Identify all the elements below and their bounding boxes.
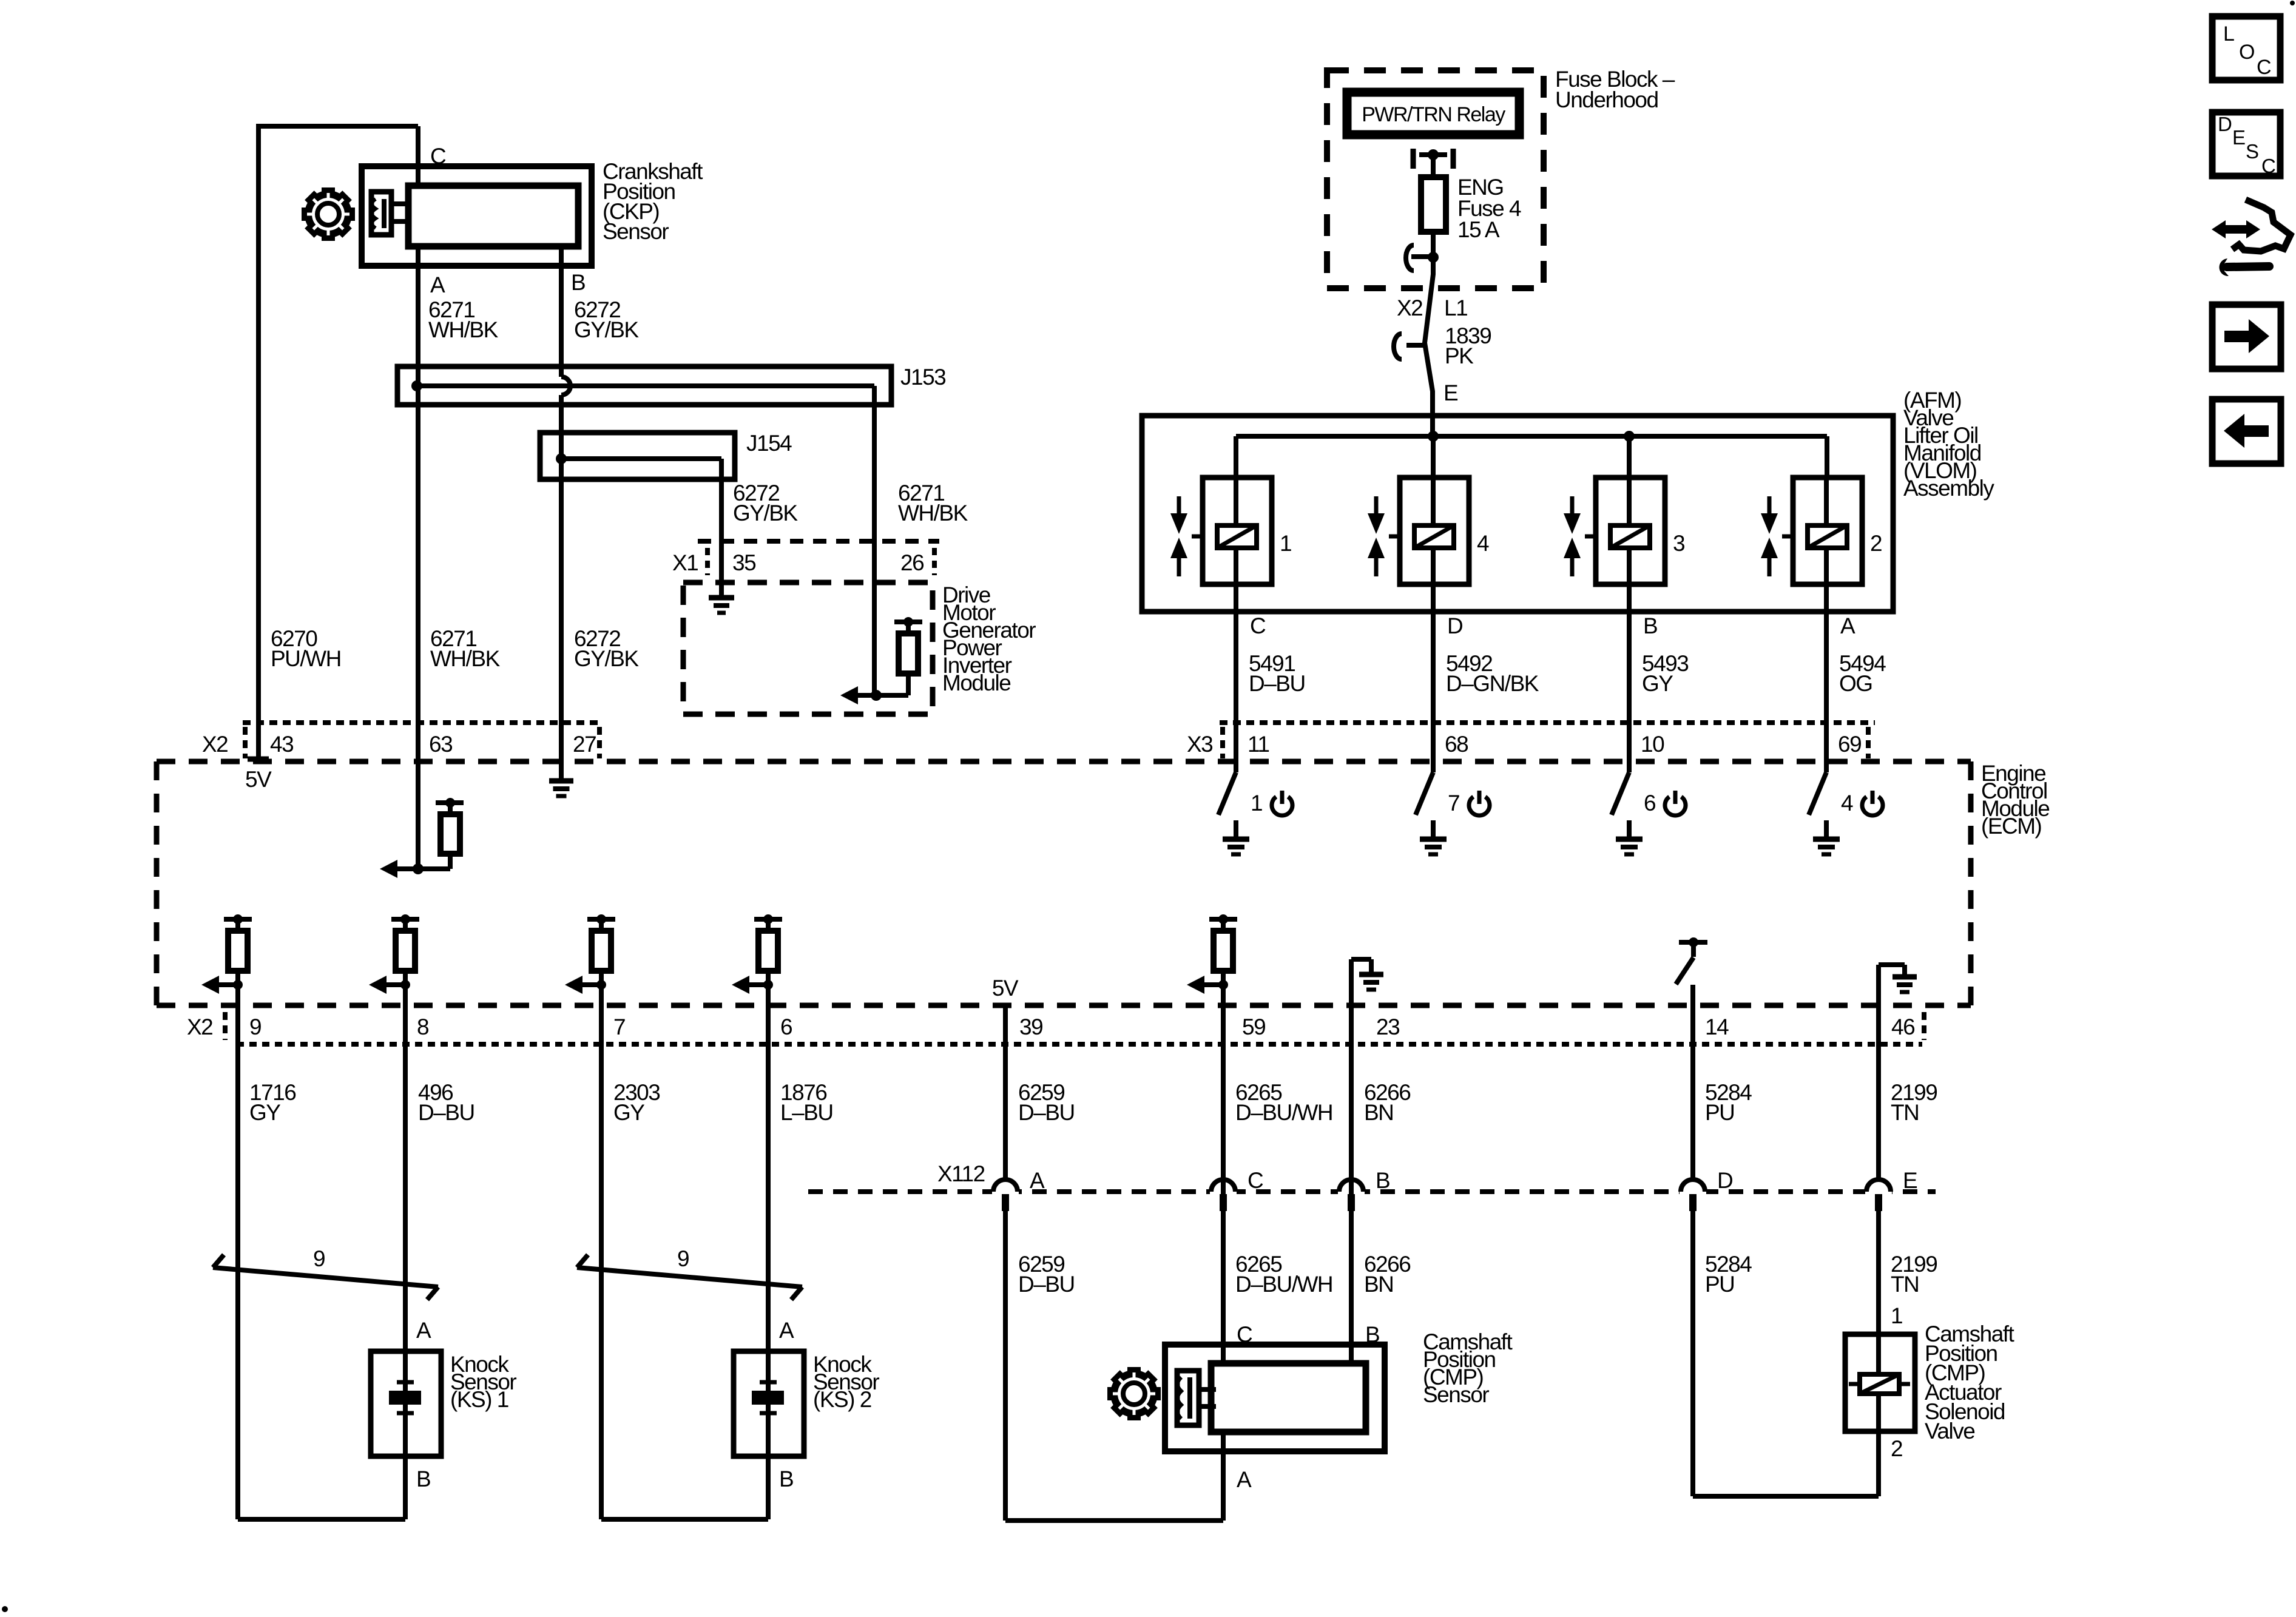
svg-text:B: B <box>1376 1168 1389 1193</box>
wire 6259 lower + loop to CMP A <box>1003 1211 1008 1521</box>
svg-text:1: 1 <box>1280 531 1291 556</box>
svg-text:7: 7 <box>1448 791 1459 815</box>
ECM pull-up above pin 7 <box>587 917 615 922</box>
ECM pull-up above pin 8 <box>391 917 419 922</box>
svg-text:26: 26 <box>900 550 923 575</box>
wire 2199 lower into actuator 1 <box>1876 1211 1881 1334</box>
svg-text:2: 2 <box>1870 531 1882 556</box>
CKP sensor outer box <box>362 166 592 266</box>
wire fuse to connector <box>1431 232 1436 260</box>
svg-text:L: L <box>2223 22 2234 46</box>
svg-text:10: 10 <box>1641 732 1664 757</box>
svg-text:35: 35 <box>732 550 756 575</box>
svg-text:D–BU: D–BU <box>1018 1272 1075 1297</box>
svg-text:46: 46 <box>1891 1014 1914 1039</box>
svg-text:BN: BN <box>1364 1100 1393 1125</box>
svg-text:A: A <box>779 1318 794 1343</box>
svg-text:X1: X1 <box>672 550 698 575</box>
svg-text:43: 43 <box>270 732 293 757</box>
svg-text:C: C <box>1237 1322 1252 1347</box>
wire relay to fuse <box>1431 155 1436 177</box>
svg-text:J154: J154 <box>746 431 792 456</box>
forward arrow <box>2224 319 2269 353</box>
VLOM assembly outer box <box>1142 416 1893 612</box>
svg-text:WH/BK: WH/BK <box>430 646 501 671</box>
svg-text:PU: PU <box>1705 1100 1734 1125</box>
junction dot J153 on wire 6271 <box>411 380 422 391</box>
svg-text:X112: X112 <box>937 1161 985 1186</box>
wire 5493 GY (VLOM B to ECM 10) <box>1627 584 1632 772</box>
wire 2303 GY (pin 7) <box>599 985 604 1519</box>
Drive Motor Generator Power Inverter Module box <box>683 582 933 714</box>
svg-text:15 A: 15 A <box>1457 217 1500 242</box>
wire 6271 branch to X1-26 <box>872 386 877 695</box>
CMP sensor inner body <box>1211 1363 1366 1432</box>
CKP sensor connector element box <box>372 199 376 228</box>
svg-text:O: O <box>2239 41 2254 64</box>
svg-text:D: D <box>1447 613 1462 638</box>
svg-text:6: 6 <box>780 1014 792 1039</box>
wire 1716 GY (pin 9) <box>235 985 240 1519</box>
svg-text:Sensor: Sensor <box>1423 1382 1489 1407</box>
svg-text:PK: PK <box>1445 343 1474 368</box>
svg-text:A: A <box>1030 1168 1045 1193</box>
CMP connector link bars <box>1199 1387 1216 1392</box>
wire 6270 top segment (CKP pin C feed) <box>258 124 418 129</box>
wire 2199 TN upper (pin 46) <box>1876 965 1881 1181</box>
svg-text:OG: OG <box>1839 671 1872 696</box>
wire 5284 lower (pin 14 to actuator 2) <box>1690 1211 1695 1496</box>
svg-text:D–BU: D–BU <box>418 1100 474 1125</box>
shielding symbol knock sensor 1 circuit <box>213 1268 438 1287</box>
piezo element KS1 <box>403 1351 408 1456</box>
Engine Control Module (ECM) dashed outline <box>157 759 1971 765</box>
svg-text:L–BU: L–BU <box>780 1100 833 1125</box>
svg-text:D: D <box>1717 1168 1732 1193</box>
svg-text:J153: J153 <box>900 365 945 390</box>
wire loop actuator return <box>1693 1494 1879 1499</box>
splice J153 box <box>397 366 891 405</box>
CMP sensor outer box <box>1165 1345 1385 1451</box>
connector row X3 dotted line <box>1220 720 1875 725</box>
svg-text:TN: TN <box>1891 1100 1919 1125</box>
svg-text:7: 7 <box>613 1014 625 1039</box>
terminal T-bar at ECM pin 43 <box>248 757 269 762</box>
svg-text:68: 68 <box>1445 732 1468 757</box>
svg-text:E: E <box>1903 1168 1917 1193</box>
ECM pull-up above pin 59 <box>1209 917 1237 922</box>
svg-text:B: B <box>571 270 585 295</box>
junction dot at X1-26 internal <box>871 690 882 701</box>
svg-text:A: A <box>416 1318 431 1343</box>
wire 5284 PU upper (pin 14) <box>1690 985 1695 1181</box>
CKP sensor inner body <box>408 186 578 246</box>
connector row X1 <box>698 539 939 544</box>
svg-text:5V: 5V <box>245 767 272 792</box>
svg-text:C: C <box>1248 1168 1263 1193</box>
oil control solenoid 2 (VLOM) <box>1793 478 1862 584</box>
junction dot bus/solenoid3 <box>1624 431 1635 442</box>
svg-text:1: 1 <box>1891 1303 1902 1328</box>
DESC navigation box <box>2212 112 2280 176</box>
X2 bottom separator dash <box>223 1012 228 1040</box>
svg-text:X2: X2 <box>202 732 228 757</box>
X1 separator dash right <box>932 548 937 575</box>
svg-text:GY: GY <box>249 1100 280 1125</box>
svg-text:9: 9 <box>313 1246 325 1271</box>
wire 6265 into CMP C <box>1221 1181 1226 1366</box>
svg-text:Assembly: Assembly <box>1903 476 1994 501</box>
CMP actuator solenoid valve box <box>1845 1334 1915 1431</box>
wire loop KS1 return (pin 9 to B) <box>238 1517 405 1522</box>
shielding symbol knock sensor 2 circuit <box>577 1268 802 1287</box>
svg-text:5V: 5V <box>992 976 1019 1001</box>
svg-text:39: 39 <box>1019 1014 1042 1039</box>
svg-text:3: 3 <box>1673 531 1684 556</box>
wire 5492 D-GN/BK (VLOM D to ECM 68) <box>1431 584 1436 772</box>
svg-text:C: C <box>1250 613 1266 638</box>
X3 separator dash right <box>1866 727 1871 758</box>
inline connector X112 terminal C <box>1210 1187 1237 1197</box>
svg-text:14: 14 <box>1705 1014 1729 1039</box>
wire loop KS2 return (pin 7 to B) <box>601 1517 768 1522</box>
wire 5491 D-BU (VLOM C to ECM 11) <box>1234 584 1238 772</box>
bus drop to solenoid 1 <box>1234 436 1238 478</box>
relay terminal bracket <box>1411 149 1416 169</box>
wire 6265 D-BU/WH upper (pin 59) <box>1221 985 1226 1181</box>
internal arrow (inverter module input) <box>840 686 858 704</box>
svg-text:C: C <box>2257 56 2271 79</box>
crossover hop on wire 6272 at J153 <box>561 377 570 395</box>
svg-text:PU/WH: PU/WH <box>271 646 341 671</box>
wire 496 D-BU (pin 8) <box>403 985 408 1351</box>
svg-text:WH/BK: WH/BK <box>428 317 499 342</box>
connector clip lower <box>1406 343 1425 348</box>
svg-text:D–BU: D–BU <box>1249 671 1305 696</box>
X3 separator dash <box>1220 727 1225 758</box>
svg-text:D–BU: D–BU <box>1018 1100 1075 1125</box>
svg-text:B: B <box>416 1467 430 1491</box>
splice J154 internal wire <box>561 456 721 461</box>
svg-text:TN: TN <box>1891 1272 1919 1297</box>
pull-up resistor (inverter module) <box>906 673 911 695</box>
page corner mark <box>2 1606 8 1612</box>
svg-text:GY/BK: GY/BK <box>574 317 639 342</box>
X1 separator dash <box>705 548 710 575</box>
svg-text:E: E <box>1443 380 1458 405</box>
svg-text:E: E <box>2232 126 2245 149</box>
inline connector X112 terminal B <box>1338 1187 1365 1197</box>
svg-text:11: 11 <box>1248 732 1269 757</box>
svg-text:D–BU/WH: D–BU/WH <box>1235 1272 1332 1297</box>
ECM pull-up above pin 6 <box>754 917 782 922</box>
Knock Sensor (KS) 1 box <box>371 1351 441 1456</box>
connector row X2 dotted line (bottom) <box>237 1042 1922 1047</box>
wire 6272 GY/BK upper segment <box>559 246 564 377</box>
inline connector X112 terminal A <box>992 1187 1019 1197</box>
junction dot pin 63 internal <box>413 863 424 874</box>
back arrow navigation box <box>2212 399 2281 464</box>
svg-text:B: B <box>1643 613 1657 638</box>
svg-text:9: 9 <box>677 1246 689 1271</box>
back arrow <box>2224 414 2269 448</box>
ECM driver switch 7 with ground <box>1431 761 1436 772</box>
svg-text:A: A <box>1840 613 1855 638</box>
svg-text:59: 59 <box>1242 1014 1265 1039</box>
svg-text:GY: GY <box>1642 671 1673 696</box>
jumper harness tool icon <box>2232 200 2291 251</box>
svg-text:B: B <box>1365 1322 1379 1347</box>
svg-text:6: 6 <box>1644 791 1655 815</box>
piezo element KS2 <box>766 1351 771 1456</box>
svg-text:PWR/TRN Relay: PWR/TRN Relay <box>1362 103 1505 126</box>
splice J153 internal wire <box>417 383 874 388</box>
VLOM internal supply bus <box>1236 434 1827 439</box>
wire 6266 into CMP B <box>1349 1181 1354 1366</box>
LOC navigation box <box>2212 16 2280 80</box>
svg-text:C: C <box>2261 155 2275 177</box>
ECM driver switch 1 with ground <box>1234 761 1238 772</box>
inline connector X112 terminal E <box>1865 1187 1892 1197</box>
svg-text:23: 23 <box>1376 1014 1399 1039</box>
fuse ENG Fuse 4 15A <box>1421 177 1446 232</box>
connector row X2 dotted line (top) <box>243 720 601 725</box>
oil control solenoid 3 (VLOM) <box>1596 478 1665 584</box>
svg-text:1: 1 <box>1251 791 1262 815</box>
connector row X112 dashed line <box>808 1189 1936 1194</box>
svg-text:L1: L1 <box>1444 295 1467 320</box>
svg-text:69: 69 <box>1838 732 1861 757</box>
junction dot bus/E <box>1428 431 1439 442</box>
ECM pull-up above pin 9 <box>224 917 252 922</box>
PWR/TRN Relay box <box>1347 92 1519 135</box>
wire 6266 BN upper (pin 23) <box>1349 959 1354 1181</box>
ECM driver switch 6 with ground <box>1627 761 1632 772</box>
svg-text:Module: Module <box>942 670 1010 695</box>
svg-text:B: B <box>779 1467 793 1491</box>
svg-text:(ECM): (ECM) <box>1981 814 2042 839</box>
Fuse Block - Underhood box <box>1327 70 1544 288</box>
svg-text:A: A <box>430 272 445 297</box>
X2 top separator dash <box>243 727 248 758</box>
svg-text:(KS) 2: (KS) 2 <box>813 1387 871 1412</box>
wire CKP pin C stub <box>416 126 420 188</box>
wire 6272 branch to X1-35 <box>719 459 724 598</box>
X2 bottom separator dash right <box>1922 1012 1926 1040</box>
CMP sensor connector element box <box>1178 1377 1181 1419</box>
junction dot above X2 connector <box>1428 252 1439 263</box>
svg-text:X2: X2 <box>187 1014 212 1039</box>
svg-text:D–BU/WH: D–BU/WH <box>1235 1100 1332 1125</box>
wire 6259 D-BU upper (pin 39) <box>1003 1005 1008 1181</box>
gear icon (CKP reluctor) <box>322 187 335 194</box>
svg-text:PU: PU <box>1705 1272 1734 1297</box>
svg-text:9: 9 <box>249 1014 261 1039</box>
ground at X1 pin 35 <box>709 595 734 601</box>
forward arrow navigation box <box>2212 305 2281 369</box>
internal arrow pin 63 <box>380 860 397 878</box>
oil control solenoid 4 (VLOM) <box>1400 478 1469 584</box>
svg-text:S: S <box>2246 140 2258 163</box>
oil control solenoid 1 (VLOM) <box>1203 478 1272 584</box>
ECM driver switch 4 with ground <box>1824 761 1829 772</box>
bus drop to solenoid 3 <box>1627 436 1632 478</box>
ECM internal switch (pin 14) <box>1679 940 1707 945</box>
ECM internal ground (pin 23) <box>1349 959 1354 1005</box>
wire 1876 L-BU (pin 6) <box>766 985 771 1351</box>
svg-text:2: 2 <box>1891 1436 1902 1461</box>
svg-text:63: 63 <box>429 732 452 757</box>
wire 6271 WH/BK (CKP A to ECM 63) <box>416 246 420 869</box>
svg-text:A: A <box>1237 1467 1252 1492</box>
wire 1839 PK jog through X2/L1 <box>1425 257 1433 436</box>
svg-text:GY/BK: GY/BK <box>574 646 639 671</box>
ground at ECM pin 27 <box>549 778 573 784</box>
wire 5494 OG (VLOM A to ECM 69) <box>1824 584 1829 772</box>
svg-text:D: D <box>2218 113 2232 135</box>
bus drop to solenoid 2 <box>1825 436 1829 478</box>
connector clip upper <box>1411 254 1430 259</box>
svg-text:27: 27 <box>573 732 596 757</box>
actuator coil <box>1876 1334 1881 1431</box>
supply T-bar (inverter module) <box>894 619 922 624</box>
svg-text:GY/BK: GY/BK <box>733 501 798 525</box>
svg-text:D–GN/BK: D–GN/BK <box>1446 671 1539 696</box>
svg-text:4: 4 <box>1841 791 1853 815</box>
supply T-bar pin 63 <box>436 800 464 805</box>
svg-text:4: 4 <box>1477 531 1489 556</box>
X2 top separator dash right <box>597 727 602 758</box>
svg-text:Valve: Valve <box>1925 1419 1974 1443</box>
inline connector X112 terminal D <box>1680 1187 1706 1197</box>
wire 6272 GY/BK to J154 <box>559 395 564 778</box>
svg-text:X3: X3 <box>1187 732 1212 757</box>
svg-text:GY: GY <box>613 1100 644 1125</box>
svg-text:8: 8 <box>417 1014 428 1039</box>
wire E into solenoid 4 <box>1431 436 1436 478</box>
gear icon (CMP reluctor) <box>1127 1367 1141 1374</box>
wire CMP A to loop <box>1221 1432 1226 1521</box>
CKP connector link bars <box>391 201 410 206</box>
ECM internal ground (pin 46) <box>1876 965 1881 1005</box>
junction dot J154 on wire 6272 <box>556 453 567 464</box>
pull-up resistor pin 63 <box>448 854 453 869</box>
svg-text:WH/BK: WH/BK <box>898 501 968 525</box>
svg-text:(KS) 1: (KS) 1 <box>450 1387 508 1412</box>
svg-text:Sensor: Sensor <box>603 219 669 244</box>
svg-text:X2: X2 <box>1397 295 1422 320</box>
splice J154 box <box>540 433 735 479</box>
svg-text:Underhood: Underhood <box>1555 87 1658 112</box>
svg-text:BN: BN <box>1364 1272 1393 1297</box>
Knock Sensor (KS) 2 box <box>734 1351 804 1456</box>
